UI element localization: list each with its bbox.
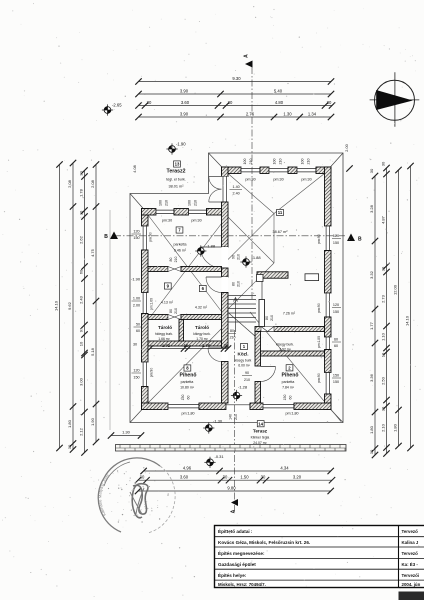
roof hip corner top-right [325,153,344,174]
svg-text:4.87: 4.87 [380,215,385,224]
svg-text:Építtető adatai :: Építtető adatai : [218,527,253,534]
svg-text:2004. jún: 2004. jún [402,582,421,587]
svg-text:2.00: 2.00 [133,304,140,308]
svg-text:Tároló: Tároló [195,325,209,330]
svg-text:210: 210 [194,200,198,206]
svg-text:2.73: 2.73 [380,294,385,303]
svg-text:1.40: 1.40 [233,185,240,189]
svg-text:12.00: 12.00 [392,284,397,295]
svg-text:30: 30 [327,100,332,105]
svg-text:3.28: 3.28 [369,204,374,213]
exterior wall bottom d [294,403,331,410]
section marker A top [245,61,253,68]
roof diagonal piheno right [250,312,341,422]
svg-text:1.10: 1.10 [380,332,385,341]
svg-text:Kovács Géza, Miskolc, Felsőruz: Kovács Géza, Miskolc, Felsőruzsin krt. 2… [218,540,310,545]
svg-text:1.72: 1.72 [162,343,171,348]
svg-text:1.80: 1.80 [392,423,397,432]
left chain 4.75/5.18 [95,165,97,443]
roof diagonal piheno left [148,322,228,403]
left extra extension line [109,210,111,430]
window top-left 100/210 a [156,209,174,216]
svg-text:4.34: 4.34 [280,465,289,470]
door 80/210 in W2 [168,315,181,320]
elevation -1.30 terasz [203,422,214,433]
svg-text:2.50: 2.50 [380,376,385,385]
interior wall W1 b [181,267,222,272]
exterior wall left mid1 [142,250,149,293]
svg-text:100: 100 [273,159,277,165]
svg-text:80: 80 [265,316,269,320]
svg-text:210: 210 [244,378,250,382]
svg-text:-1.88: -1.88 [206,244,216,249]
svg-text:30: 30 [78,171,83,176]
svg-text:-1.88: -1.88 [252,255,262,260]
svg-text:150: 150 [283,395,287,401]
svg-text:150: 150 [133,236,139,240]
svg-text:14.10: 14.10 [53,300,58,311]
interior wall W2 b [181,315,222,320]
svg-text:2.43: 2.43 [78,295,83,304]
dividing wall seg4 [222,293,229,349]
bottom dimension 9.80 [138,490,331,492]
svg-text:5.18: 5.18 [90,347,95,356]
svg-text:14: 14 [258,421,263,426]
roof hip corner bottom-right [325,403,344,423]
svg-text:3.32: 3.32 [369,270,374,279]
dividing wall seg5 [222,362,229,404]
svg-text:210: 210 [307,159,311,165]
svg-text:1.78: 1.78 [202,343,211,348]
svg-text:parketta: parketta [282,380,295,384]
svg-text:-1.90: -1.90 [176,142,186,147]
svg-text:60: 60 [334,338,338,342]
svg-text:Gazdasági épület: Gazdasági épület [218,562,256,567]
door 90/210 kozl to pihenoR [261,367,276,382]
title block [215,526,424,588]
svg-text:120: 120 [133,230,139,234]
exterior wall right lower [325,394,332,410]
window right 60/60 [325,337,332,350]
svg-text:Kalina J: Kalina J [402,540,419,545]
interior wall W1 szoba [148,267,168,272]
svg-text:210: 210 [174,308,178,314]
roof ridge vertical [273,214,275,264]
interior wall W3 tarolo bottom [148,341,222,346]
svg-text:Terasz2: Terasz2 [167,169,186,175]
room box 14 [257,421,264,427]
svg-text:80: 80 [230,329,234,333]
svg-text:tégl. el burk.: tégl. el burk. [166,178,186,182]
svg-text:pm:1.60: pm:1.60 [150,298,154,310]
section marker B right [347,234,355,242]
svg-text:A: A [244,54,250,58]
svg-text:2.10: 2.10 [380,423,385,432]
mini dim 1.30 [111,435,141,437]
section line B [114,235,345,237]
staircase [228,296,256,333]
svg-text:Klinker tégla: Klinker tégla [251,436,270,440]
svg-text:9.46 m²: 9.46 m² [174,249,187,253]
top dimension 3.90 5.40 [139,93,332,95]
terrace and eaves outline [130,153,343,423]
svg-text:60: 60 [334,344,338,348]
svg-text:2.62: 2.62 [78,235,83,244]
room box 9 [164,283,171,289]
svg-text:90: 90 [245,371,249,375]
svg-text:hidegg burk.: hidegg burk. [155,332,173,336]
svg-text:30: 30 [67,444,72,449]
roof hip corner bottom-left [130,403,148,423]
inner dimension line 1.72/10/1.78/30 [150,348,228,350]
svg-text:120: 120 [133,369,139,373]
partial wall nappali/szoba hatched [257,272,288,278]
svg-text:150: 150 [333,241,339,245]
svg-text:210: 210 [270,315,274,321]
svg-text:7.84 m²: 7.84 m² [282,386,295,390]
exterior wall bottom b [199,403,226,410]
svg-text:3.90: 3.90 [180,88,189,93]
svg-text:14.10: 14.10 [404,315,409,326]
window right 120/150 b [325,293,332,317]
svg-text:1.78: 1.78 [78,188,83,197]
exterior wall right mid2 [325,317,332,337]
partial wall corner notch [257,275,264,282]
roof diagonal left X 2 [148,215,228,320]
right chain 14.10 [410,166,412,448]
section line A lower [234,330,236,512]
door 80/210 in W1 [168,267,181,272]
svg-text:30: 30 [140,475,145,480]
right chain detail 2 [386,168,388,454]
svg-text:3.36: 3.36 [369,373,374,382]
svg-text:B: B [358,237,362,243]
svg-text:2.40: 2.40 [233,192,240,196]
elevation -1.88 szoba [195,245,206,256]
svg-text:5.40: 5.40 [274,88,283,93]
left chain 9.62 [72,163,74,450]
svg-text:1.30: 1.30 [122,430,131,435]
svg-text:80: 80 [232,282,236,286]
exterior wall bottom a [142,403,169,410]
interior wall W7 lower [255,382,261,404]
svg-text:30: 30 [78,210,83,215]
svg-text:Közl.: Közl. [238,352,249,357]
svg-text:-0.31: -0.31 [215,454,225,459]
svg-text:30: 30 [133,343,137,347]
svg-text:pm:90: pm:90 [150,368,154,378]
dark corner mark [399,592,424,600]
svg-text:38.01 m²: 38.01 m² [169,185,185,189]
svg-text:30: 30 [147,100,152,105]
svg-text:2.08: 2.08 [67,179,72,188]
exterior wall left upper [142,209,149,227]
svg-text:30: 30 [261,475,266,480]
svg-text:1.77: 1.77 [369,321,374,330]
svg-text:1.66 m²: 1.66 m² [158,337,170,341]
top dimension 9.30 [139,81,332,83]
roof valley to wall [228,214,274,260]
top dimension 3.90 2.76 1.30 1.34 [139,116,332,118]
exterior wall top-left c [207,209,229,216]
roof hip corner step [209,153,229,174]
svg-text:7.26 m²: 7.26 m² [283,312,296,316]
exterior wall top-left b [174,209,189,216]
svg-text:1.34: 1.34 [308,111,317,116]
roof valley lower [228,263,274,309]
svg-text:2.00: 2.00 [345,144,349,151]
svg-text:pm:90: pm:90 [149,232,153,242]
svg-text:10: 10 [380,352,385,357]
svg-text:10: 10 [78,341,83,346]
window left piheno 120/150 [142,362,149,387]
svg-text:4.32 m²: 4.32 m² [195,306,208,310]
svg-text:120: 120 [333,303,339,307]
svg-text:1.50: 1.50 [240,475,249,480]
svg-text:pm:1,80: pm:1,80 [286,412,299,416]
svg-text:-2.65: -2.65 [112,103,122,108]
svg-text:-1.28: -1.28 [238,385,248,390]
svg-text:30: 30 [228,100,233,105]
window left 100 [142,293,149,314]
svg-text:30: 30 [369,168,374,173]
interior wall W5 bathroom top [255,327,325,332]
svg-text:1.80: 1.80 [369,425,374,434]
svg-text:100: 100 [301,159,305,165]
interior wall W6 bathroom bottom [255,351,325,356]
svg-text:11: 11 [278,210,283,215]
svg-text:3.92 m²: 3.92 m² [279,348,291,352]
left chain detail [84,171,86,453]
exterior wall top-right d [316,167,331,174]
svg-text:100: 100 [243,159,247,165]
svg-text:1.90: 1.90 [90,417,95,426]
exterior wall right mid3 [325,350,332,373]
elevation -2.65 outside [102,103,122,116]
window top-right 100/210 a [241,167,260,174]
exterior wall top-right a [222,167,242,174]
svg-text:3.90: 3.90 [180,111,189,116]
svg-text:210: 210 [165,200,169,206]
svg-text:150: 150 [333,310,339,314]
svg-text:210: 210 [249,159,253,165]
window right 120/150 a [325,226,332,251]
room box 8 [184,365,191,371]
partial wall nappali/szoba white pier [305,274,319,281]
roof valley big room left [228,174,274,214]
elevation -1.90 terrace [166,142,186,155]
svg-text:10.80 m²: 10.80 m² [180,386,195,390]
window bottom pihenoR 150/60 [263,403,294,410]
svg-text:9.80: 9.80 [227,485,236,490]
elevation -0.31 bottom [204,457,215,468]
svg-text:30: 30 [369,449,374,454]
bottom dimension chain [138,479,332,481]
exterior wall top-left a [142,209,157,216]
szoba 7.26 left boundary line [261,281,263,300]
svg-text:3.60: 3.60 [181,100,190,105]
exterior wall top-right b [260,167,269,174]
bottom dimension 4.96 4.34 [144,470,331,472]
svg-text:parketta: parketta [174,243,187,247]
room box 7 [176,227,183,233]
svg-text:Építés megnevezése:: Építés megnevezése: [218,549,265,556]
svg-text:pm:1,80: pm:1,80 [182,412,195,416]
svg-text:150: 150 [181,395,185,401]
svg-text:Pihenő: Pihenő [180,373,197,379]
svg-text:210: 210 [279,159,283,165]
svg-text:pm:30: pm:30 [301,178,311,182]
svg-text:30: 30 [224,343,229,348]
dividing wall top with double door gap [222,167,229,177]
svg-text:3.60: 3.60 [180,475,189,480]
svg-text:60: 60 [187,396,191,400]
svg-text:Terasz: Terasz [253,429,268,434]
svg-text:4.13 m²: 4.13 m² [161,301,174,305]
section marker A bottom [231,499,238,506]
exterior wall right upper [325,167,332,226]
svg-text:30: 30 [380,161,385,166]
svg-text:pm:90: pm:90 [317,303,321,313]
svg-text:1.00: 1.00 [133,297,140,301]
svg-text:2.08: 2.08 [90,179,95,188]
right chain 12.00 [398,170,400,446]
svg-text:-1.30: -1.30 [213,419,223,424]
dividing wall seg3 [222,268,229,277]
right chain detail 1 [374,176,376,455]
svg-text:pm:30: pm:30 [191,219,201,223]
svg-text:pm:1.80: pm:1.80 [317,336,321,348]
exterior wall top-right c [288,167,297,174]
svg-text:Tervező: Tervező [402,551,419,556]
svg-text:4.08: 4.08 [133,165,137,172]
door triangles in W5 [261,327,274,332]
room box 13 [174,161,181,167]
svg-text:4.96: 4.96 [183,465,192,470]
terrace brick band [116,445,347,452]
svg-text:10: 10 [184,343,189,348]
svg-text:Tároló: Tároló [158,325,172,330]
svg-text:140: 140 [229,414,233,420]
svg-text:Tervezői: Tervezői [402,573,420,578]
stair break diagonal [227,312,256,338]
svg-text:50: 50 [136,323,140,327]
svg-text:97: 97 [78,327,83,332]
svg-text:2.12: 2.12 [78,427,83,436]
svg-text:60: 60 [136,329,140,333]
svg-text:Ka: É3 -: Ka: É3 - [402,562,419,567]
svg-text:Miskolc, Hrsz: 70494/7.: Miskolc, Hrsz: 70494/7. [218,582,266,587]
exterior wall right mid1 [325,251,332,294]
interior wall W7 kozl vertical [255,332,261,367]
door 90/210 dividing wall [222,247,229,268]
svg-text:3.20: 3.20 [293,475,302,480]
svg-text:1.80: 1.80 [67,419,72,428]
elevation -1.28 kozl [231,390,242,401]
room box 11 [277,209,284,215]
window top-left 100/210 b [189,209,207,216]
door bottom terrace 140/210 [226,403,250,410]
svg-text:pm:30: pm:30 [162,219,172,223]
svg-text:13: 13 [175,162,180,167]
architect stamp with signature [97,458,175,533]
svg-text:kisegy burk.: kisegy burk. [276,343,294,347]
chimney block [259,300,265,327]
exterior wall left lower [142,387,149,410]
svg-text:4.80: 4.80 [275,100,284,105]
svg-text:150: 150 [333,374,339,378]
svg-text:60: 60 [289,396,293,400]
dividing wall seg2 [222,202,229,247]
svg-text:210: 210 [237,281,241,287]
svg-text:-1.90: -1.90 [131,277,141,282]
svg-text:Tervező: Tervező [402,529,419,534]
svg-text:9.30: 9.30 [232,76,241,81]
svg-text:150: 150 [133,376,139,380]
window top-right 100/210 b [269,167,288,174]
svg-text:parketta: parketta [181,380,194,384]
svg-text:A: A [231,509,237,513]
roof diagonal left X 1 [148,215,228,320]
svg-text:100: 100 [159,200,163,206]
svg-text:Pihenő: Pihenő [282,373,299,379]
roof hip big room right [274,174,325,214]
north arrow [370,72,420,127]
double door 140/240 in dividing wall [222,177,229,203]
window right 150/150 [325,373,332,395]
room box 2 [286,365,293,371]
svg-text:150: 150 [333,380,339,384]
window bottom pihenoL 150/60 [168,403,199,410]
svg-text:80: 80 [169,309,173,313]
svg-text:1.30: 1.30 [283,111,292,116]
window top-right 100/210 c [297,167,316,174]
svg-text:80: 80 [169,258,173,262]
svg-text:2.76: 2.76 [246,111,255,116]
svg-text:pm:30: pm:30 [245,178,255,182]
svg-text:Építés helye:: Építés helye: [218,571,247,578]
left chain 14.10 [59,165,61,449]
svg-text:4.75: 4.75 [90,248,95,257]
svg-text:3.00: 3.00 [78,377,83,386]
top dimension 30 3.60 30 4.80 30 [139,105,333,107]
svg-text:100: 100 [188,200,192,206]
svg-text:210: 210 [237,254,241,260]
svg-text:30: 30 [223,475,228,480]
room box 1 [241,343,248,349]
room box 6 [199,285,206,291]
svg-text:pm:90: pm:90 [317,373,321,383]
svg-text:6.00 m²: 6.00 m² [238,364,250,368]
roof hip corner top-left [130,194,148,215]
svg-text:1.70 m²: 1.70 m² [196,337,208,341]
svg-text:B: B [104,234,108,240]
svg-text:30: 30 [380,406,385,411]
roof valley cross [228,217,274,263]
svg-text:38.67 m²: 38.67 m² [273,230,289,234]
svg-text:kisegy burk: kisegy burk [235,359,252,363]
interior wall W2 [148,315,168,320]
door 90/210 to pihenoL [222,348,229,362]
svg-text:9.62: 9.62 [67,301,72,310]
elevation -1.88 nappali [240,256,251,267]
exterior wall bottom c [250,403,263,410]
section line A upper [251,67,253,300]
svg-text:210: 210 [174,257,178,263]
exterior wall left mid2 [142,314,149,363]
svg-text:30: 30 [380,266,385,271]
svg-text:pm:30: pm:30 [273,178,283,182]
